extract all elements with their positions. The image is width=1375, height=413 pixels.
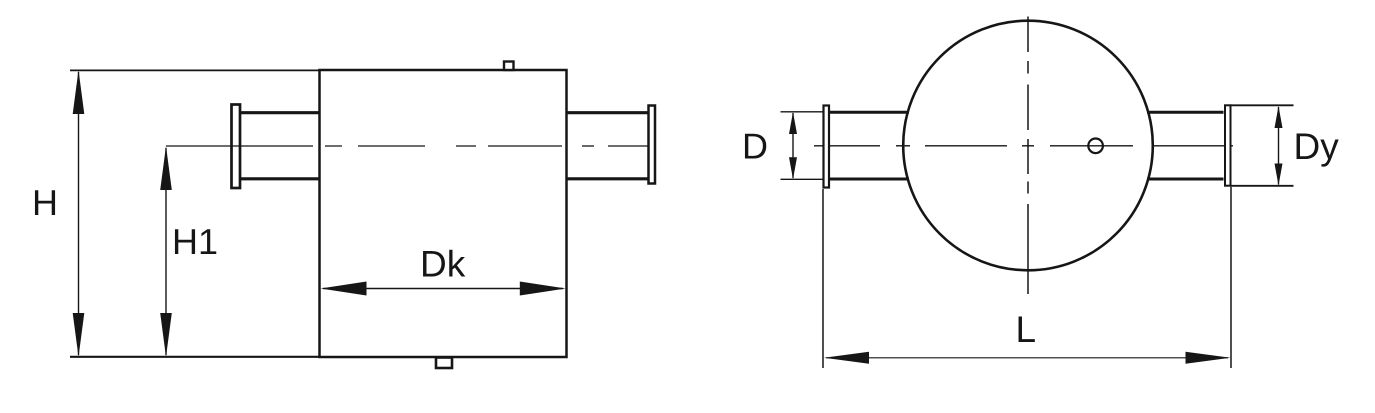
- left flange (end view): [824, 106, 830, 188]
- svg-text:Dy: Dy: [1294, 126, 1340, 167]
- dimension L right arrow: [1186, 352, 1231, 364]
- top nozzle tab: [504, 62, 514, 71]
- dimension H1 line: [165, 148, 167, 355]
- right pipe top line (end view): [1147, 111, 1224, 114]
- dimension L left extension line: [822, 189, 824, 368]
- left pipe top line (side view): [239, 111, 320, 114]
- horizontal centerline dash e (end view): [1050, 145, 1133, 147]
- dimension H top arrow: [73, 70, 85, 114]
- right pipe top line (side view): [567, 111, 649, 114]
- dimension H bottom arrow: [73, 313, 85, 357]
- svg-text:L: L: [1016, 309, 1037, 350]
- right flange ring (end view): [1225, 105, 1231, 185]
- centerline solid segment (side view): [166, 145, 313, 147]
- bottom extension line to H dimension: [70, 356, 320, 358]
- vessel body (side view): [320, 70, 567, 357]
- horizontal centerline dash d (end view): [1022, 145, 1034, 147]
- vertical centerline dash f (end view): [1027, 204, 1029, 294]
- right flange (side view): [649, 106, 656, 184]
- right pipe bottom line (end view): [1147, 178, 1224, 181]
- dimension Dk line: [323, 288, 563, 290]
- svg-text:H1: H1: [172, 221, 218, 262]
- dimension H line: [78, 72, 80, 355]
- horizontal centerline dash b (end view): [896, 145, 910, 147]
- dimension Dk right arrow: [520, 282, 566, 296]
- dimension Dk left arrow: [321, 282, 367, 296]
- dimension D top extension line: [781, 111, 823, 113]
- left pipe bottom line (end view): [830, 178, 909, 181]
- centerline dash b (side view): [358, 145, 425, 147]
- dimension L left arrow: [824, 352, 869, 364]
- dimension L line: [826, 357, 1228, 359]
- vertical centerline dash b (end view): [1027, 61, 1029, 74]
- horizontal centerline dash c (end view): [925, 145, 1007, 147]
- vertical centerline dash d (end view): [1027, 139, 1029, 174]
- bottom drain tab: [436, 358, 452, 369]
- dimension D top arrow: [789, 112, 797, 134]
- centerline dash d (side view): [488, 145, 562, 147]
- dimension D bottom arrow: [789, 157, 797, 179]
- dimension Dy bottom arrow: [1275, 164, 1283, 186]
- vessel shell circle (end view): [903, 21, 1153, 271]
- svg-text:D: D: [742, 126, 768, 167]
- centerline dash e (side view): [582, 145, 594, 147]
- dimension D line: [792, 113, 794, 178]
- centerline dash f (side view): [608, 145, 649, 147]
- flange cap top line (end view): [1230, 104, 1294, 106]
- centerline dash c (side view): [456, 145, 476, 147]
- sight hole small circle (end view): [1088, 139, 1103, 154]
- dimension Dy line: [1278, 107, 1280, 185]
- dimension L right extension line: [1230, 187, 1232, 368]
- dimension D bottom extension line: [781, 178, 823, 180]
- centerline dash a (side view): [325, 145, 342, 147]
- horizontal centerline dash a (end view): [814, 145, 880, 147]
- flange cap bottom line (end view): [1230, 185, 1294, 187]
- svg-text:H: H: [32, 182, 58, 223]
- top extension line to H dimension: [70, 69, 320, 71]
- right pipe bottom line (side view): [567, 177, 649, 180]
- vertical centerline dash e (end view): [1027, 182, 1029, 194]
- horizontal centerline dash f (end view): [1152, 145, 1233, 147]
- vertical centerline dash a (end view): [1027, 17, 1029, 53]
- left pipe bottom line (side view): [239, 177, 320, 180]
- vertical centerline dash c (end view): [1027, 85, 1029, 131]
- left flange (side view): [232, 105, 241, 189]
- left pipe top line (end view): [830, 111, 909, 114]
- svg-text:Dk: Dk: [420, 244, 466, 285]
- dimension H1 bottom arrow: [160, 313, 172, 357]
- dimension Dy top arrow: [1275, 106, 1283, 128]
- dimension H1 top arrow: [160, 146, 172, 190]
